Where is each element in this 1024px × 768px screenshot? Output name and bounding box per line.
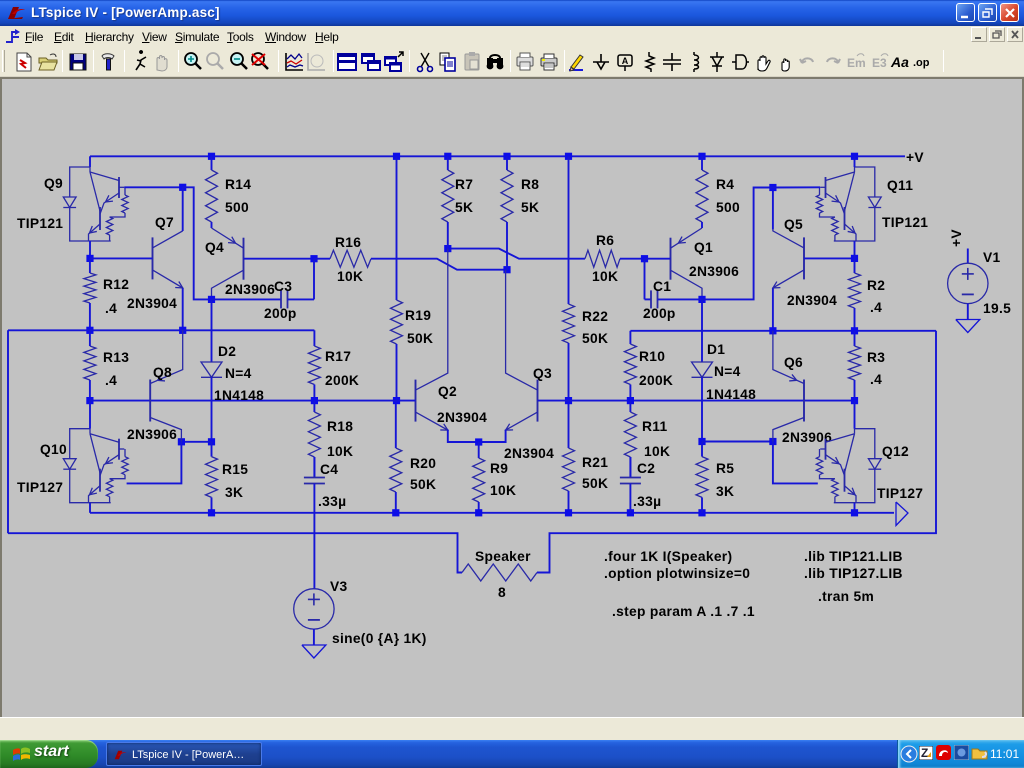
wire Q12 collector up [854, 401, 856, 429]
menu item View [142, 30, 167, 44]
label Q9 [44, 176, 63, 191]
menu item Tools [227, 30, 254, 44]
label Q10 [40, 442, 67, 457]
svg-text:D1: D1 [707, 342, 725, 357]
svg-text:+V: +V [906, 150, 924, 165]
toolbar icon tile horizontal [335, 50, 359, 74]
label Q4 [205, 240, 224, 255]
wire crossover node A to R6 [448, 249, 585, 259]
directive .four [604, 549, 732, 564]
svg-text:2N3906: 2N3906 [689, 264, 739, 279]
label R17 [325, 349, 351, 364]
restore button [978, 3, 997, 22]
svg-text:R14: R14 [225, 177, 251, 192]
node Q11 collector on rail [851, 153, 858, 160]
label 8 value of Speaker [498, 585, 506, 600]
transistor Q6 2N3906 lower driver [773, 331, 804, 442]
label 1N4148 value of D2 [214, 388, 264, 403]
wire Q10 collector up [89, 401, 91, 429]
toolbar icon wire pencil [565, 50, 589, 74]
label R14 [225, 177, 251, 192]
node output arrow marker [896, 502, 908, 526]
label .4 value of R3 [870, 372, 882, 387]
toolbar separator [124, 50, 125, 72]
svg-text:5K: 5K [521, 200, 539, 215]
label 5K value of R7 [455, 200, 473, 215]
svg-text:Q9: Q9 [44, 176, 63, 191]
label D1 [707, 342, 725, 357]
svg-text:R3: R3 [867, 350, 885, 365]
wire Q8 collector to D2 node [181, 441, 211, 443]
toolbar icon run [128, 50, 152, 74]
svg-text:.4: .4 [105, 373, 117, 388]
toolbar icon spice directive .op [911, 50, 935, 74]
node Q11 base / Q5 collector junction [769, 184, 776, 191]
toolbar icon fft gray [304, 50, 328, 74]
transistor Q11 TIP121 darlington [816, 167, 881, 242]
resistor R8 5K [501, 156, 513, 269]
svg-text:C3: C3 [274, 279, 292, 294]
svg-text:2N3904: 2N3904 [504, 446, 554, 461]
ground below V1 [956, 320, 980, 333]
label 3K value of R15 [225, 485, 243, 500]
toolbar icon cascade [359, 50, 383, 74]
svg-text:TIP121: TIP121 [17, 216, 63, 231]
toolbar separator [62, 50, 63, 72]
toolbar icon cut [413, 50, 437, 74]
wire V1 plus lead [967, 249, 969, 264]
label R5 [716, 461, 734, 476]
menu item Simulate [175, 30, 219, 44]
node R19 top on rail [393, 153, 400, 160]
toolbar icon ground symbol [589, 50, 613, 74]
application title bar [0, 0, 1024, 26]
toolbar icon Em gray [844, 50, 868, 74]
svg-text:.33µ: .33µ [633, 494, 661, 509]
label Q2 [438, 384, 457, 399]
capacitor C1 200p [645, 290, 703, 308]
label TIP121 value of Q11 [882, 215, 928, 230]
capacitor C4 .33u [304, 457, 325, 589]
label R2 [867, 278, 885, 293]
menu bar [0, 26, 1024, 47]
svg-text:.lib TIP127.LIB: .lib TIP127.LIB [804, 566, 903, 581]
directive .lib TIP127 [804, 566, 903, 581]
diode D2 1N4148 N=4 [201, 299, 222, 441]
svg-text:R16: R16 [335, 235, 361, 250]
resistor R22 50K [563, 156, 575, 400]
node R7 top on rail [444, 153, 451, 160]
toolbar separator [564, 50, 565, 72]
resistor R5 3K [696, 442, 708, 513]
voltage source V3 [294, 589, 334, 629]
label N=4 value of D2 [225, 366, 252, 381]
directive .lib TIP121 [804, 549, 903, 564]
node Q4 base / R16 left junction [310, 255, 317, 262]
resistor R19 50K [391, 156, 403, 400]
transistor Q10 TIP127 darlington [63, 429, 128, 504]
resistor R13 .4 [84, 330, 96, 400]
label +V net at V1 [949, 229, 964, 247]
label Q12 [882, 444, 909, 459]
label 2N3904 value of Q3 [504, 446, 554, 461]
node R14 top on +V rail [208, 153, 215, 160]
svg-text:R19: R19 [405, 308, 431, 323]
wire Q11 base to node [773, 186, 820, 188]
label 5K value of R8 [521, 200, 539, 215]
svg-text:R18: R18 [327, 419, 353, 434]
svg-text:Q2: Q2 [438, 384, 457, 399]
node Q2 base junction [393, 397, 400, 404]
svg-text:10K: 10K [644, 444, 670, 459]
node R13 bottom junction [86, 397, 93, 404]
toolbar icon text Aa [889, 50, 913, 74]
svg-text:R5: R5 [716, 461, 734, 476]
toolbar icon print [537, 50, 561, 74]
svg-text:A: A [622, 56, 629, 66]
svg-text:Q12: Q12 [882, 444, 909, 459]
svg-text:.4: .4 [870, 372, 882, 387]
transistor Q2 2N3904 [416, 249, 448, 431]
menu item File [25, 30, 43, 44]
resistor R6 10K [585, 250, 620, 267]
wire Q11 emitter drop [854, 241, 856, 258]
node C2 bottom junction [627, 509, 634, 516]
svg-text:.four 1K I(Speaker): .four 1K I(Speaker) [604, 549, 732, 564]
svg-text:200p: 200p [264, 306, 297, 321]
status strip [0, 717, 1024, 740]
node Q8 collector junction [178, 438, 185, 445]
toolbar icon netlist hammer [96, 50, 120, 74]
svg-text:.option plotwinsize=0: .option plotwinsize=0 [604, 566, 750, 581]
label C1 [653, 279, 671, 294]
wire Q12 emitter to bottom rail [854, 503, 856, 513]
directive .step [612, 604, 755, 619]
wire Q11 collector drop [854, 156, 856, 167]
svg-text:10K: 10K [490, 483, 516, 498]
node Q6 collector junction [769, 438, 776, 445]
wire Q5 base [804, 257, 855, 259]
label 2N3904 value of Q7 [127, 296, 177, 311]
label TIP121 value of Q9 [17, 216, 63, 231]
svg-text:+V: +V [949, 229, 964, 247]
node Q3 base junction [565, 397, 572, 404]
label Q8 [153, 365, 172, 380]
svg-text:Q1: Q1 [694, 240, 713, 255]
label R4 [716, 177, 734, 192]
capacitor C2 .33u [620, 457, 641, 513]
toolbar icon find [483, 50, 507, 74]
node tail junction R9 top [475, 438, 482, 445]
svg-text:1N4148: 1N4148 [214, 388, 264, 403]
node D1 bottom / R5 top [698, 438, 705, 445]
svg-text:19.5: 19.5 [983, 301, 1011, 316]
svg-text:2N3904: 2N3904 [437, 410, 487, 425]
ground below V3 [302, 645, 326, 658]
close button [1000, 3, 1019, 22]
label R6 [596, 233, 614, 248]
label R12 [103, 277, 129, 292]
resistor R12 .4 [84, 258, 96, 330]
wire emitter output rail [90, 512, 894, 514]
label Q3 [533, 366, 552, 381]
node Q7 base junction [86, 255, 93, 262]
wire Q9 emitter drop [89, 241, 91, 258]
label R19 [405, 308, 431, 323]
svg-text:10K: 10K [327, 444, 353, 459]
svg-text:R12: R12 [103, 277, 129, 292]
directive .option [604, 566, 750, 581]
svg-text:C2: C2 [637, 461, 655, 476]
svg-text:R17: R17 [325, 349, 351, 364]
transistor Q5 2N3904 [773, 229, 804, 288]
resistor R9 10K [473, 442, 485, 513]
svg-text:2N3906: 2N3906 [127, 427, 177, 442]
tray folder icon [971, 745, 988, 760]
svg-text:1N4148: 1N4148 [706, 387, 756, 402]
label V3 [330, 579, 348, 594]
resistor R7 5K [442, 156, 454, 248]
node R8 top on rail [503, 153, 510, 160]
menu item Edit [54, 30, 74, 44]
label D2 [218, 344, 236, 359]
toolbar icon redo gray [820, 50, 844, 74]
wire Q5 collector up [772, 188, 774, 230]
label N=4 value of D1 [714, 364, 741, 379]
label 10K value of R6 [592, 269, 618, 284]
node Q5 base / Q11 emitter junction [851, 255, 858, 262]
svg-text:R4: R4 [716, 177, 734, 192]
wire Q1 base lead [645, 258, 671, 260]
wire Q7 emitter down [182, 288, 184, 330]
svg-text:R21: R21 [582, 455, 608, 470]
wire Q10 emitter to bottom rail [89, 503, 91, 513]
svg-text:.4: .4 [870, 300, 882, 315]
svg-text:R15: R15 [222, 462, 248, 477]
label R22 [582, 309, 608, 324]
label R11 [642, 419, 667, 434]
minimize button [956, 3, 975, 22]
wire R16 right to crossover [371, 259, 507, 270]
svg-text:.op: .op [913, 57, 930, 69]
node R20 bottom junction [392, 509, 399, 516]
label Q6 [784, 355, 803, 370]
svg-text:N=4: N=4 [225, 366, 252, 381]
label TIP127 value of Q10 [17, 480, 63, 495]
svg-text:2N3904: 2N3904 [787, 293, 837, 308]
wire C1 left up to Q1 base node [644, 259, 646, 300]
label 2N3906 value of Q4 [225, 282, 275, 297]
wire +V power rail [90, 155, 905, 157]
svg-text:Q4: Q4 [205, 240, 224, 255]
label 200K value of R17 [325, 373, 359, 388]
svg-text:R8: R8 [521, 177, 539, 192]
node A R7 bottom junction [444, 245, 451, 252]
label 500 value of R4 [716, 200, 740, 215]
wire speaker to right box edge [537, 331, 936, 573]
node Q7 emitter on output rail [179, 327, 186, 334]
toolbar separator [333, 50, 334, 72]
svg-text:N=4: N=4 [714, 364, 741, 379]
svg-text:R13: R13 [103, 350, 129, 365]
svg-text:Q6: Q6 [784, 355, 803, 370]
svg-text:2N3906: 2N3906 [225, 282, 275, 297]
taskbar item LTspice [106, 742, 262, 766]
transistor Q3 2N3904 [506, 270, 538, 430]
wire left box edge [7, 330, 9, 533]
label 50K value of R22 [582, 331, 608, 346]
wire Q10 base [127, 442, 182, 484]
resistor R2 .4 [849, 258, 861, 330]
wire V3 bottom [313, 629, 315, 645]
wire output net left [8, 329, 314, 331]
svg-text:Q5: Q5 [784, 217, 803, 232]
label .4 value of R2 [870, 300, 882, 315]
svg-text:Z: Z [921, 746, 928, 760]
toolbar icon paste gray [460, 50, 484, 74]
node R22 top on rail [565, 153, 572, 160]
tray ZoneAlarm icon [919, 746, 933, 760]
svg-text:200p: 200p [643, 306, 676, 321]
label 2N3904 value of Q5 [787, 293, 837, 308]
resistor R20 50K [390, 401, 402, 513]
label R3 [867, 350, 885, 365]
svg-text:500: 500 [716, 200, 740, 215]
label 10K value of R18 [327, 444, 353, 459]
toolbar [0, 47, 1024, 77]
wire link Q5 collector node to C1 node [702, 188, 773, 300]
label Q11 [887, 178, 913, 193]
svg-text:10K: 10K [337, 269, 363, 284]
svg-text:3K: 3K [716, 484, 734, 499]
label R10 [639, 349, 665, 364]
label R13 [103, 350, 129, 365]
toolbar icon halt hand [149, 50, 173, 74]
toolbar icon waveform [282, 50, 306, 74]
node R17/R18 junction [311, 397, 318, 404]
node B R8 bottom junction [503, 266, 510, 273]
label R21 [582, 455, 608, 470]
transistor Q8 2N3906 lower driver [150, 330, 183, 442]
svg-text:.lib TIP121.LIB: .lib TIP121.LIB [804, 549, 903, 564]
svg-text:R20: R20 [410, 456, 436, 471]
toolbar separator [409, 50, 410, 72]
MDI close [1007, 27, 1023, 42]
svg-text:.tran 5m: .tran 5m [818, 589, 874, 604]
transistor Q4 2N3906 [212, 228, 244, 299]
svg-text:R2: R2 [867, 278, 885, 293]
toolbar icon zoom full [248, 50, 272, 74]
wire Q3 emitter corner [479, 430, 506, 442]
node D2 bottom / R15 top [208, 438, 215, 445]
wire Q5 emitter down [772, 288, 774, 330]
wire Q4 base to R16 [244, 258, 315, 260]
label Speaker [475, 549, 531, 564]
svg-text:V3: V3 [330, 579, 348, 594]
label 3K value of R5 [716, 484, 734, 499]
node R5 bottom junction [698, 509, 705, 516]
svg-text:Q11: Q11 [887, 178, 913, 193]
resistor R21 50K [563, 401, 575, 513]
window title text [31, 5, 220, 20]
child schematic icon [4, 28, 21, 45]
label C2 [637, 461, 655, 476]
svg-text:Q8: Q8 [153, 365, 172, 380]
toolbar icon E3 gray [868, 50, 892, 74]
label R20 [410, 456, 436, 471]
toolbar icon print preview [513, 50, 537, 74]
label R16 [335, 235, 361, 250]
svg-text:8: 8 [498, 585, 506, 600]
transistor Q1 2N3906 [671, 228, 703, 299]
label .33u value of C4 [318, 494, 346, 509]
label Q1 [694, 240, 713, 255]
resistor R18 10K [308, 401, 320, 478]
toolbar icon component [728, 50, 752, 74]
label Q5 [784, 217, 803, 232]
wire Q9 base to node [124, 186, 182, 188]
clock [990, 747, 1019, 761]
svg-text:50K: 50K [410, 477, 436, 492]
taskbar [0, 740, 1024, 768]
toolbar icon capacitor [660, 50, 684, 74]
node R4 top on rail [698, 153, 705, 160]
toolbar icon cascade restore [382, 50, 406, 74]
svg-text:50K: 50K [407, 331, 433, 346]
label 200K value of R10 [639, 373, 673, 388]
transistor Q12 TIP127 darlington [816, 429, 881, 504]
svg-text:Aa: Aa [890, 54, 909, 70]
toolbar icon inductor [682, 50, 706, 74]
label .4 value of R12 [105, 301, 117, 316]
tray blue app icon [954, 745, 969, 760]
toolbar icon zoom in [181, 50, 205, 74]
resistor R3 .4 [849, 331, 861, 401]
toolbar icon resistor [637, 50, 661, 74]
label 500 value of R14 [225, 200, 249, 215]
wire left bias rail to Q2 base [90, 400, 416, 402]
wire link Q7 collector node down to C3 node [183, 187, 212, 299]
svg-text:.step param A .1 .7 .1: .step param A .1 .7 .1 [612, 604, 755, 619]
svg-text:TIP127: TIP127 [877, 486, 923, 501]
label sine value of V3 [332, 631, 427, 646]
label R15 [222, 462, 248, 477]
toolbar icon zoom out [227, 50, 251, 74]
label C4 [320, 462, 338, 477]
label 2N3906 value of Q6 [782, 430, 832, 445]
toolbar icon open [36, 50, 60, 74]
svg-text:200K: 200K [325, 373, 359, 388]
svg-text:D2: D2 [218, 344, 236, 359]
label C3 [274, 279, 292, 294]
toolbar icon new schematic [12, 50, 36, 74]
node Q12 emitter bottom junction [851, 509, 858, 516]
svg-text:Q7: Q7 [155, 215, 174, 230]
label 1N4148 value of D1 [706, 387, 756, 402]
resistor R11 10K [624, 401, 636, 478]
wire right bias rail Q3 base to R3 [538, 400, 855, 402]
label V1 [983, 250, 1001, 265]
label Q7 [155, 215, 174, 230]
svg-text:C1: C1 [653, 279, 671, 294]
label R8 [521, 177, 539, 192]
label .4 value of R13 [105, 373, 117, 388]
tray Avira icon [936, 745, 951, 760]
svg-text:10K: 10K [592, 269, 618, 284]
svg-text:.4: .4 [105, 301, 117, 316]
wire output net right [630, 330, 936, 332]
transistor Q7 2N3904 [153, 231, 183, 288]
